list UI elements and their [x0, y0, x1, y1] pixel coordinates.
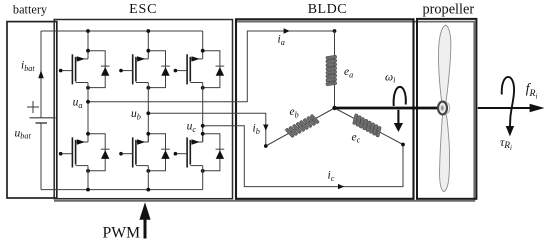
- node drain Q2: [146, 49, 150, 53]
- diode D5: [148, 134, 170, 171]
- wire phase b rail u_b: [148, 113, 265, 146]
- node u_b: [146, 111, 150, 115]
- node phase c terminal: [401, 143, 405, 147]
- battery plus sign: [27, 106, 39, 108]
- winding e_b: [285, 114, 319, 138]
- propeller box: [417, 19, 476, 199]
- propeller hub: [438, 102, 450, 115]
- ESC box: [54, 20, 232, 199]
- node drain Q1: [86, 49, 90, 53]
- node top bus leg a: [86, 29, 90, 33]
- wire leg b vertical: [147, 83, 149, 143]
- wire winding c lead: [335, 108, 404, 145]
- outer system boundary (gray): [54, 22, 474, 201]
- propeller blade top: [439, 25, 451, 101]
- diode D6: [203, 134, 225, 171]
- diode D4: [88, 134, 110, 171]
- node drain Q5: [146, 132, 150, 136]
- wire Q6 source to bottom bus: [202, 166, 204, 190]
- node bottom bus leg a: [86, 188, 90, 192]
- transistor Q3: [174, 31, 203, 84]
- wire battery negative to bottom bus: [40, 123, 42, 190]
- svg-text:BLDC: BLDC: [308, 2, 347, 17]
- node source Q4: [86, 169, 90, 173]
- winding e_a: [326, 55, 337, 86]
- transistor Q2: [119, 31, 148, 84]
- node phase a terminal: [333, 29, 337, 33]
- current arrow i_c: [338, 184, 344, 189]
- node source Q1: [86, 86, 90, 90]
- battery cell B1 plates: [30, 117, 56, 119]
- torque arrow tau_R: [502, 77, 514, 126]
- transistor Q1: [59, 31, 88, 84]
- winding e_c: [353, 114, 382, 138]
- diode D1: [88, 51, 110, 88]
- node phase b terminal: [264, 144, 268, 148]
- wire battery positive to top bus: [40, 31, 42, 118]
- svg-text:PWM: PWM: [103, 224, 141, 241]
- current arrow i_b: [263, 125, 268, 131]
- node top bus leg b: [146, 29, 150, 33]
- wire DC top bus: [41, 30, 203, 32]
- svg-text:propeller: propeller: [422, 2, 474, 18]
- diode D2: [148, 51, 170, 88]
- transistor Q4: [59, 134, 88, 168]
- svg-text:ESC: ESC: [129, 2, 157, 17]
- diode D3: [203, 51, 225, 88]
- node source Q6: [201, 169, 205, 173]
- wire DC bottom bus: [41, 189, 203, 191]
- transistor Q6: [174, 134, 203, 168]
- node drain Q4: [86, 132, 90, 136]
- svg-text:battery: battery: [13, 3, 48, 17]
- node bottom bus leg b: [146, 188, 150, 192]
- transistor Q5: [119, 134, 148, 168]
- node source Q5: [146, 169, 150, 173]
- node star point: [332, 106, 336, 110]
- wire winding b lead: [266, 108, 335, 146]
- node source Q2: [146, 86, 150, 90]
- current arrow i_a: [284, 28, 290, 33]
- node source Q3: [201, 86, 205, 90]
- BLDC box: [236, 19, 414, 199]
- wire leg a vertical: [87, 83, 89, 143]
- wire Q5 source to bottom bus: [147, 166, 149, 190]
- node u_c: [201, 124, 205, 128]
- node drain Q6: [201, 132, 205, 136]
- wire winding a lead: [334, 31, 336, 108]
- wire phase a rail u_a: [88, 31, 335, 102]
- propeller blade bottom: [440, 115, 450, 192]
- rotation arrow omega_i: [394, 87, 406, 106]
- current arrow i_bat: [38, 70, 44, 78]
- force arrow f_R: [478, 107, 531, 109]
- signal arrow PWM: [144, 220, 147, 239]
- wire Q4 source to bottom bus: [87, 166, 89, 190]
- wire phase c rail u_c: [203, 126, 403, 187]
- battery box: [7, 22, 57, 198]
- motor shaft: [335, 107, 443, 110]
- node drain Q3: [201, 49, 205, 53]
- wire leg c vertical: [202, 83, 204, 143]
- node u_a: [86, 100, 90, 104]
